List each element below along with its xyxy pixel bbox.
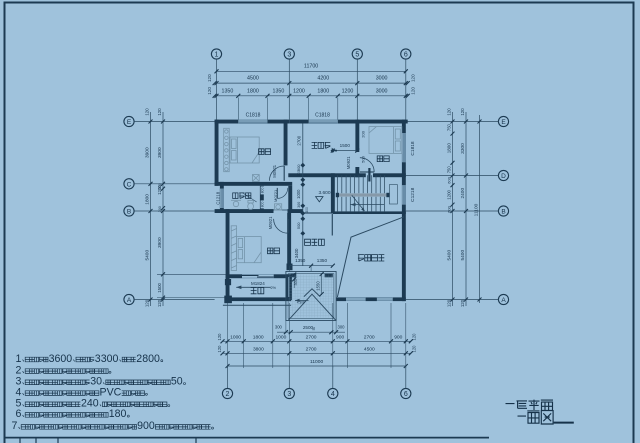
svg-text:4500: 4500 [364,346,375,352]
svg-text:1000: 1000 [275,334,286,340]
wall interior hall west [288,186,292,213]
bed bedroom2 [369,127,402,154]
bottom dimension row 3800 2700 4500 [217,345,416,355]
porch entry arrow with level 4.300 [295,299,309,305]
grid bubble E right [498,116,508,126]
dimension row total 11700 [215,64,408,74]
stair treads lower flight [338,197,385,212]
wall exterior west lower [226,209,230,301]
porch vertical dimension 1550 [316,272,324,296]
wall interior bedroom1 east with door opening [284,120,288,166]
svg-text:C1818: C1818 [410,141,416,155]
svg-text:120: 120 [157,299,162,307]
svg-text:3.600: 3.600 [318,190,330,196]
window C1818 north wall left [238,120,267,123]
wall interior B horizontal with door opening [215,209,333,213]
svg-text:900: 900 [296,164,301,171]
svg-text:1000: 1000 [296,189,301,199]
svg-text:120: 120 [447,108,452,116]
svg-text:120: 120 [157,108,162,116]
title underline [554,422,574,424]
svg-text:5: 5 [355,52,359,59]
grid bubble 3 bottom [284,388,294,398]
svg-text:3900: 3900 [157,147,163,158]
wall stair west [331,173,335,213]
note line 3 floor levels 30 50 [16,376,186,388]
svg-text:4500: 4500 [247,76,259,82]
svg-text:2400: 2400 [460,188,466,199]
grid bubble 1 [211,49,221,59]
svg-text:11700: 11700 [304,64,318,70]
svg-text:200: 200 [361,130,366,137]
door M0921 bedroom2 with swing arc [360,158,374,172]
dimension row window subdivisions [207,87,416,98]
svg-text:300: 300 [305,207,309,213]
left outer dimension chain 3900 1800 5400 [144,108,152,307]
svg-text:4: 4 [16,386,22,398]
interior dimension chain at corridor x300 [296,124,309,266]
porch vertical dimension 300 [292,273,298,289]
svg-text:5400: 5400 [145,250,151,261]
svg-text:120: 120 [410,87,415,95]
svg-text:900: 900 [137,420,155,432]
svg-text:1800: 1800 [447,143,452,154]
svg-text:300: 300 [158,206,162,212]
svg-text:C1218: C1218 [410,187,416,201]
svg-text:3800: 3800 [253,346,264,352]
grid bubble 5 [352,49,362,59]
dimension pair 1350 1350 hall south [287,258,335,271]
extension lines top subdivisions [238,98,337,120]
door M0721 washroom with swing arc [277,188,288,199]
room label balcony (two hanzi) [251,288,264,294]
svg-text:5400: 5400 [460,250,466,261]
balcony drip line [223,304,291,306]
wall interior bedroom2 west with door opening [355,120,359,178]
svg-text:A: A [501,297,506,304]
right outer total dimension 11100 [474,115,482,303]
svg-text:800: 800 [261,187,265,193]
svg-text:C: C [127,181,132,188]
svg-text:6: 6 [404,391,408,398]
toilet bathroom [248,201,254,210]
level mark 3.600 with triangle [316,190,331,202]
svg-text:6: 6 [404,52,408,59]
svg-text:180: 180 [109,408,127,420]
note line 7 window height 900 safety rail [12,420,214,432]
note line 5 wall thickness 240 [16,398,170,410]
svg-text:900: 900 [394,334,402,340]
svg-text:1200: 1200 [447,189,452,199]
svg-text:1: 1 [16,353,22,365]
svg-text:A: A [127,297,132,304]
axis extension lines right [406,122,499,300]
svg-text:300: 300 [294,279,298,285]
grid bubble A left [124,294,134,304]
basin bathroom [231,200,241,206]
drawing title first floor plan (stylized hanzi) [506,400,554,424]
svg-text:2700: 2700 [296,135,301,145]
right middle dimension chain 3300 2400 5400 [460,108,468,307]
svg-text:300: 300 [297,202,301,208]
window C1818 east wall [402,133,405,162]
svg-text:1500: 1500 [157,282,162,292]
wall interior C horizontal [215,182,293,186]
bed bedroom1 [230,137,259,163]
wall interior D horizontal with stair door gap [288,173,406,177]
wardrobe bedroom3 [231,226,236,271]
svg-text:1: 1 [215,52,219,59]
svg-text:750: 750 [447,166,452,174]
grid bubble 6 bottom [401,388,411,398]
grid bubble 2 bottom [222,388,232,398]
svg-text:M1824: M1824 [251,281,265,286]
door M0921 bedroom1 with swing arc [269,166,284,181]
grid bubble C left [124,179,134,189]
svg-text:750: 750 [447,123,452,131]
svg-text:120: 120 [217,333,222,341]
note line 4 rainwater PVC pipes [16,386,148,398]
svg-text:7: 7 [12,420,18,432]
svg-text:1800: 1800 [317,88,329,94]
room label bedroom3 (two hanzi) [268,248,280,254]
svg-text:11100: 11100 [474,203,480,216]
svg-text:2%: 2% [271,286,277,290]
svg-text:120: 120 [411,333,416,341]
wall interior bedroom3 east [287,213,291,265]
extension lines left subdivisions [157,274,226,297]
svg-text:900: 900 [336,334,344,340]
svg-text:6: 6 [16,408,22,420]
svg-text:1350: 1350 [317,258,328,263]
svg-text:120: 120 [460,108,465,116]
svg-text:C1818: C1818 [246,112,261,118]
svg-text:50: 50 [312,327,316,331]
room label rest area (three hanzi) [305,239,325,245]
svg-text:1800: 1800 [253,334,264,340]
svg-text:M0921: M0921 [268,216,273,229]
dimension row axis spans 4500 4200 3000 [207,74,416,85]
window living-void south 2 [377,298,393,301]
svg-text:300: 300 [275,325,283,330]
svg-text:120: 120 [144,299,149,307]
svg-text:120: 120 [217,345,222,353]
window C1818 north wall middle [309,120,338,123]
washer washroom [275,204,282,210]
svg-text:3000: 3000 [376,88,388,94]
wardrobe bedroom1 [224,128,230,171]
svg-text:D: D [501,173,506,180]
grid bubble 6 top [401,49,411,59]
svg-text:B: B [501,209,505,216]
leader line bathroom [242,193,256,202]
wall exterior west upper [215,120,219,186]
svg-text:600: 600 [447,205,452,212]
svg-text:1200: 1200 [342,88,354,94]
door leaf stair top [368,168,370,182]
pier between balcony and porch [286,274,292,300]
svg-text:120: 120 [411,345,416,353]
note line 1 storey heights 3600 3300 2800 [16,353,163,365]
title block table top line [5,437,490,439]
wall exterior east with windows [402,120,406,302]
stool bedroom1 [252,175,259,182]
svg-text:120: 120 [207,87,212,95]
svg-text:300: 300 [338,325,346,330]
extension lines bottom [228,303,406,368]
note line 2 furniture layout [16,364,112,376]
wall balcony south [226,297,292,301]
grid bubble E left [124,116,134,126]
grid bubble D right [498,170,508,180]
svg-text:1800: 1800 [247,88,259,94]
wall hall south stub left [291,273,296,277]
porch floor hatch [289,275,334,318]
svg-text:2700: 2700 [364,334,375,340]
right inner dimension chain 750 1800 750 600 1200 600 5400 [447,108,455,307]
svg-text:E: E [127,119,132,126]
void edge line below stair wall [331,214,333,236]
svg-text:1500: 1500 [340,143,351,148]
svg-text:3900: 3900 [157,237,163,248]
column balcony southwest [224,296,232,304]
svg-text:2: 2 [16,364,22,376]
svg-text:120: 120 [410,74,415,82]
dimension 800 bathroom upper [261,186,265,194]
svg-text:M0921: M0921 [272,164,277,177]
bed bedroom3 [237,237,262,263]
porch canopy chevron small [304,289,320,297]
svg-text:120: 120 [447,299,452,307]
left inner dimension chain 3900 300 1200 300 3900 1500 [157,108,165,307]
dimension 1500 hall opening [331,143,360,153]
svg-text:2700: 2700 [306,346,317,352]
svg-text:3300: 3300 [95,353,119,365]
wall living-void south with windows [336,297,406,301]
svg-text:2: 2 [226,391,230,398]
svg-text:1800: 1800 [145,194,151,205]
bottom dimension row total 11000 [226,359,408,368]
wall exterior north E with window openings [215,120,408,124]
door M0921 bedroom3 with swing arc [274,219,288,233]
wall interior bathroom east [260,186,264,210]
room label bedroom1 (two hanzi) [259,149,271,155]
svg-text:2700: 2700 [306,334,317,340]
wall stair south edge [333,211,406,214]
svg-text:3600: 3600 [49,353,73,365]
svg-text:4: 4 [331,391,335,398]
stair treads upper flight [338,175,385,193]
room label bathroom (three hanzi) [233,193,251,199]
svg-text:1350: 1350 [222,88,234,94]
window C1218 west wall [220,189,223,208]
grid bubble B right [498,206,508,216]
stair middle handrail bar [336,193,390,197]
svg-text:E: E [501,119,506,126]
window living-void south 1 [346,298,366,301]
svg-text:5400: 5400 [447,250,453,261]
void cut diagonal line [337,217,404,297]
svg-text:1550: 1550 [316,281,321,291]
dimension 800 bathroom lower [261,200,265,208]
leader line small living room [332,148,338,152]
svg-text:4200: 4200 [317,76,329,82]
column bedroom3 southeast [287,264,293,271]
axis extension lines left [134,122,214,300]
room label living void (four hanzi) [358,255,384,261]
svg-text:800: 800 [261,201,265,207]
svg-text:300: 300 [158,183,162,189]
grid axis stems bottom [228,366,406,388]
stair landing inner line [390,185,398,205]
porch bottom dimension 300 2500 300 [275,321,345,335]
column balcony west [225,279,231,285]
svg-text:2800: 2800 [136,353,160,365]
room label small living room (three hanzi) [312,142,331,148]
svg-text:500: 500 [296,222,301,229]
svg-text:120: 120 [144,108,149,116]
svg-text:3: 3 [287,52,291,59]
svg-text:4.300: 4.300 [297,301,305,305]
svg-text:3300: 3300 [460,143,466,154]
window C1218 east wall [402,185,405,204]
grid bubble 4 bottom [328,388,338,398]
svg-text:3: 3 [287,391,291,398]
svg-text:11000: 11000 [310,359,324,365]
grid bubble 3 top [284,49,294,59]
wall bedroom3 south / balcony north with sliding door M1824 [226,274,292,278]
svg-text:120: 120 [460,299,465,307]
room label bedroom2 (two hanzi) [377,156,389,162]
svg-text:50: 50 [171,376,183,388]
svg-text:600: 600 [447,176,452,183]
note line 6 door opening 180 [16,408,130,420]
title block table verticals [20,438,196,443]
grid axis stems top [217,59,406,119]
stair direction arrow [351,195,385,211]
svg-text:1200: 1200 [293,88,305,94]
svg-text:3000: 3000 [376,76,388,82]
grid bubble B left [124,206,134,216]
svg-text:300: 300 [297,170,301,176]
svg-text:B: B [127,209,131,216]
svg-text:3400: 3400 [294,248,299,258]
svg-text:1000: 1000 [230,334,241,340]
balcony slope arrow 2% [236,286,276,291]
svg-text:3900: 3900 [145,147,151,158]
svg-text:240: 240 [81,398,99,410]
grid bubble A right [498,294,508,304]
porch canopy chevron large [288,294,335,320]
svg-text:M0921: M0921 [346,156,351,169]
bottom dimension row 1000 1800 1000 2700 900 2700 900 [217,333,416,343]
svg-text:M0721: M0721 [273,189,278,202]
svg-text:C1818: C1818 [315,112,330,118]
svg-text:C1218: C1218 [215,191,220,204]
svg-text:500: 500 [361,155,366,162]
svg-text:120: 120 [207,74,212,82]
svg-text:1350: 1350 [273,88,285,94]
wall hall south stub right [325,273,333,277]
svg-text:PVC: PVC [100,386,122,398]
porch outer walls [286,272,336,321]
wall exterior west mid with window [220,182,224,213]
